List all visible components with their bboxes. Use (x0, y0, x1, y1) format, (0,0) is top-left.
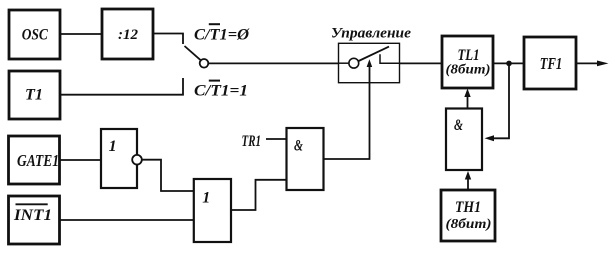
wire switch pole to control block (208, 62, 338, 64)
wire gate D1 output to gate D2 (142, 160, 194, 191)
wire gate D3 output to control arrow (324, 66, 370, 159)
svg-text:INT1: INT1 (13, 207, 52, 224)
block TL1 (8 bit) (442, 36, 493, 88)
gate D4 AND (446, 109, 482, 171)
control switch arm (359, 47, 389, 61)
control switch fixed contact (380, 54, 400, 63)
svg-text:OSC: OSC (22, 27, 48, 44)
svg-text:TL1: TL1 (458, 47, 480, 64)
gate D3 AND (287, 128, 324, 190)
wire TR1 to gate D3 (266, 138, 287, 140)
wire :12 output to switch upper contact (153, 34, 183, 45)
svg-text:1: 1 (109, 138, 117, 155)
gate D2 OR 1 (194, 179, 231, 242)
wire gate D4 to TL1 with arrowhead (464, 89, 470, 109)
label C/T1=0 (194, 24, 250, 43)
wire INT1 to gate D2 (60, 219, 194, 221)
svg-text:&: & (454, 117, 463, 134)
svg-text:Управление: Управление (331, 26, 411, 42)
label C/T1=1 (194, 81, 248, 100)
svg-text:TH1: TH1 (455, 199, 481, 216)
wire junction to gate D4 with arrowhead (485, 63, 510, 141)
block TH1 (8 bit) (441, 190, 495, 241)
wire GATE1 to gate D1 (60, 159, 102, 161)
wire gate D2 output to gate D3 (231, 180, 287, 210)
block :12 prescaler (102, 9, 153, 59)
switch S1 pole circle (200, 59, 209, 68)
block T1 (9, 71, 60, 119)
svg-text:(8бит): (8бит) (446, 63, 491, 78)
arrowhead control input (367, 59, 373, 67)
svg-text:T1: T1 (25, 87, 43, 104)
svg-text::12: :12 (118, 27, 138, 43)
svg-text:GATE1: GATE1 (17, 151, 59, 170)
control switch pole circle (349, 58, 359, 68)
wire TH1 to gate D4 with arrowhead (465, 171, 471, 190)
wire control block to TL1 (400, 62, 443, 64)
svg-text:&: & (294, 138, 303, 155)
output arrow from TF1 (576, 61, 609, 67)
block OSC (9, 10, 60, 59)
switch S1 arm (185, 46, 201, 60)
svg-text:C/T1=1: C/T1=1 (194, 83, 248, 100)
junction node dot (506, 61, 512, 67)
control switch wire from left edge (339, 62, 350, 64)
svg-text:C/T1=Ø: C/T1=Ø (194, 26, 250, 43)
gate D1 inverting output bubble (132, 155, 142, 165)
svg-text:(8бит): (8бит) (446, 217, 492, 232)
control block box (339, 43, 400, 82)
wire TL1 to TF1 (493, 62, 524, 64)
svg-text:1: 1 (202, 190, 210, 207)
block GATE1 (9, 136, 60, 184)
svg-text:TR1: TR1 (242, 133, 262, 150)
gate D1 OR 1 (101, 129, 137, 188)
block INT1 (9, 196, 60, 244)
block TF1 (524, 37, 576, 89)
wire T1 output to switch lower contact (60, 78, 183, 95)
wire OSC to :12 (60, 33, 102, 35)
svg-text:TF1: TF1 (540, 54, 563, 73)
